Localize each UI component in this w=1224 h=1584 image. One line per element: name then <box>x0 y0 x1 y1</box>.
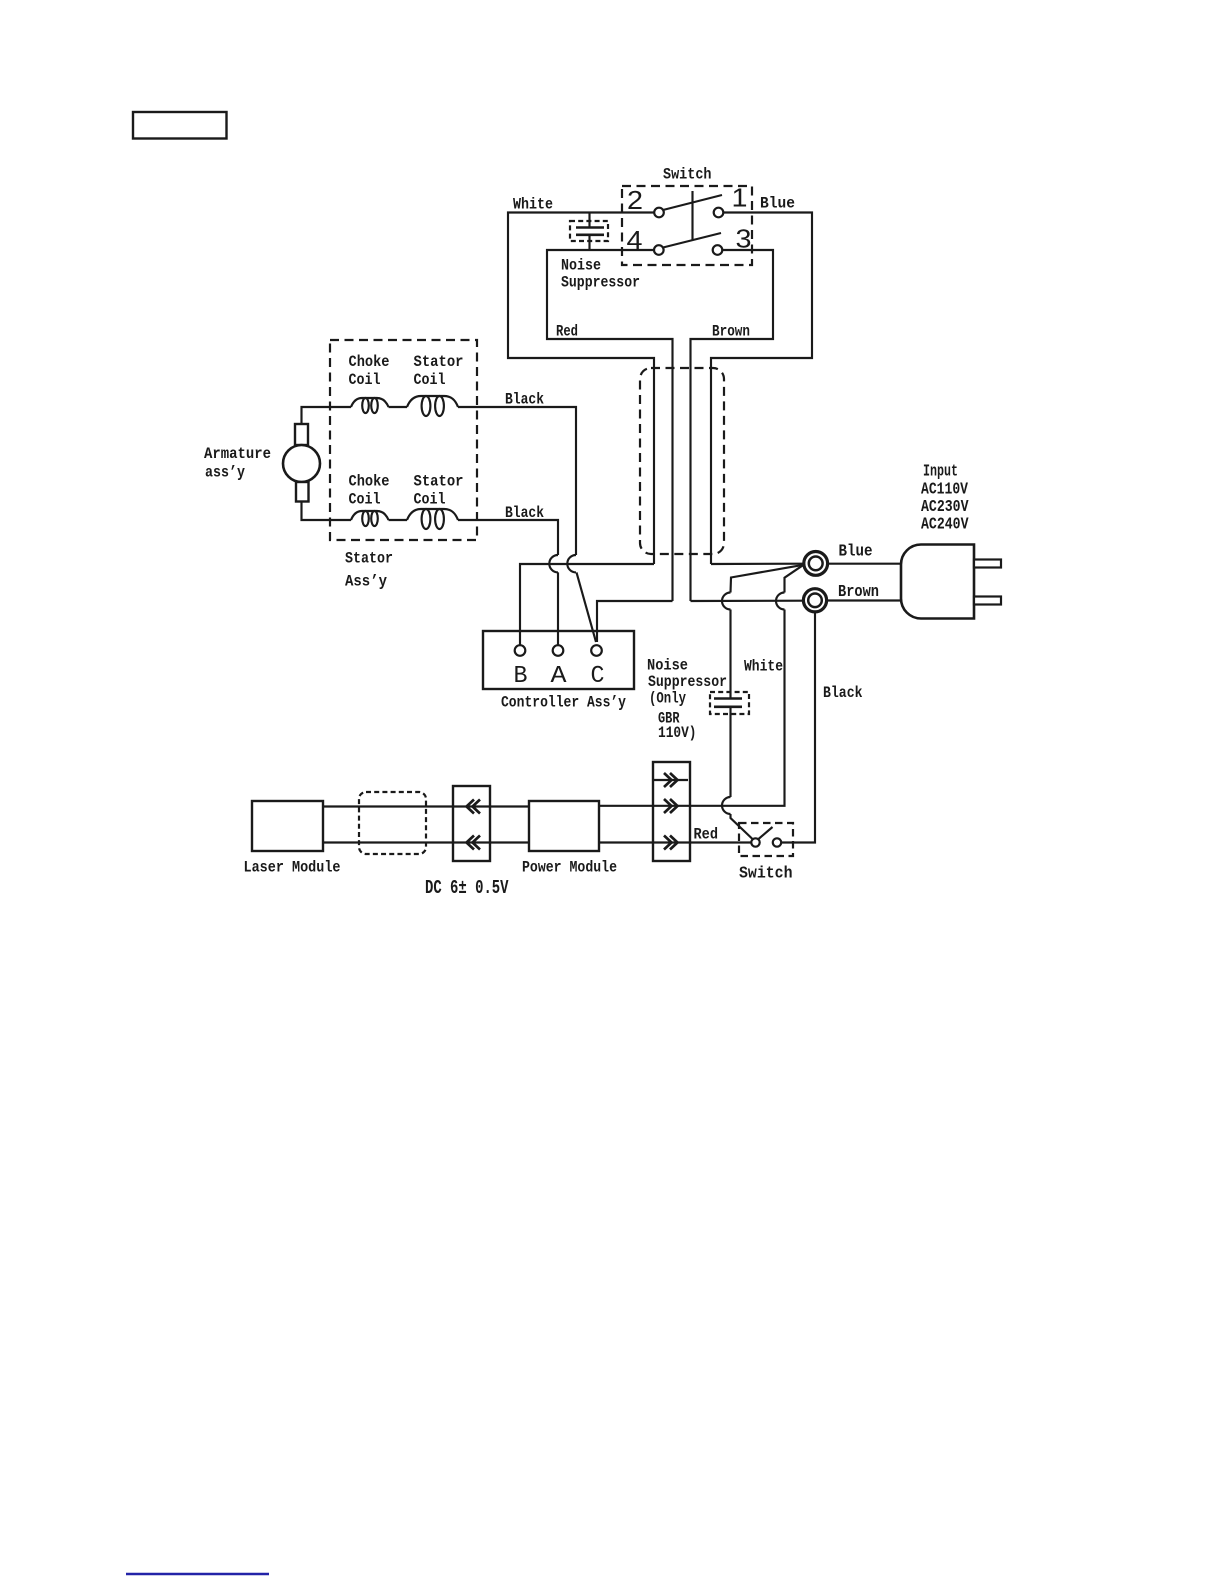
svg-text:(Only: (Only <box>649 690 686 708</box>
svg-text:Switch: Switch <box>739 865 793 884</box>
title box <box>133 112 227 139</box>
connector ring (blue) <box>804 552 828 576</box>
svg-text:DC 6± 0.5V: DC 6± 0.5V <box>425 877 509 899</box>
wire down to capacitor C2 <box>729 610 731 699</box>
slant wire from blue connector to x=730 vertical <box>731 565 804 593</box>
svg-text:White: White <box>513 196 553 214</box>
wire brown connector to plug <box>826 599 901 601</box>
capacitor C1 plates <box>576 226 604 229</box>
wire blue connector to plug <box>827 563 901 565</box>
wire <box>389 519 408 521</box>
svg-text:AC110V: AC110V <box>921 481 969 500</box>
svg-text:Coil: Coil <box>349 491 381 509</box>
armature top lead <box>302 407 352 424</box>
controller box <box>483 631 634 689</box>
wire white: terminal2 to left, down, right, down to junction <box>508 213 654 565</box>
svg-text:Coil: Coil <box>414 371 446 389</box>
slant wire from blue connector to white vertical <box>785 565 804 593</box>
switch terminal 1 <box>714 208 724 218</box>
choke coil L1 (upper) <box>351 398 389 407</box>
svg-text:1: 1 <box>732 183 748 213</box>
svg-text:Stator: Stator <box>345 550 393 568</box>
svg-text:Black: Black <box>505 391 544 409</box>
svg-text:Suppressor: Suppressor <box>648 673 727 691</box>
armature brush bottom <box>296 482 309 502</box>
power module box <box>529 801 599 851</box>
laser cable dashed box <box>359 792 426 854</box>
chevron lower left <box>467 836 481 850</box>
svg-text:Black: Black <box>505 504 544 522</box>
svg-text:Controller Ass’y: Controller Ass’y <box>501 694 626 712</box>
chevron bottom right <box>664 836 678 850</box>
hop of upper black wire over node-B wire <box>567 555 576 572</box>
wire node B horizontal <box>520 564 654 645</box>
svg-text:2: 2 <box>627 185 643 215</box>
lamp switch terminal left <box>751 838 759 846</box>
lamp switch terminal right <box>773 838 781 846</box>
svg-text:C: C <box>591 663 605 690</box>
wire laser lower <box>323 841 529 843</box>
white wire down and left to connector block <box>690 610 785 806</box>
capacitor C2 dashed box <box>710 692 749 714</box>
svg-text:110V): 110V) <box>658 724 697 742</box>
wire black (upper) <box>458 407 576 555</box>
chevron top right <box>664 773 678 787</box>
svg-text:Red: Red <box>694 826 719 844</box>
svg-text:B: B <box>514 663 528 690</box>
stator assembly dashed box <box>330 340 477 540</box>
wire power to connector lower / to lamp switch <box>599 841 752 843</box>
plug prong bottom <box>974 597 1001 605</box>
black wire from brown connector down to lamp switch <box>781 612 815 843</box>
choke coil L3 (lower) <box>351 511 389 520</box>
wire blue horizontal to connector <box>711 563 804 565</box>
wire black (lower) <box>458 520 558 555</box>
svg-text:Suppressor: Suppressor <box>561 274 640 292</box>
controller terminal A <box>553 645 564 656</box>
svg-text:Input: Input <box>923 463 958 482</box>
wire red to node C <box>597 601 673 642</box>
connector ring (brown) <box>803 589 826 612</box>
power plug body <box>901 545 974 619</box>
svg-text:Blue: Blue <box>760 195 795 213</box>
svg-text:Power Module: Power Module <box>522 859 617 877</box>
wire <box>389 406 408 408</box>
svg-text:A: A <box>551 663 568 690</box>
hop of wire over brown horizontal <box>722 593 731 610</box>
armature body <box>283 445 320 482</box>
switch terminal 2 <box>654 208 664 218</box>
wire to terminal A <box>557 572 559 645</box>
wire power to connector upper <box>599 805 690 807</box>
svg-text:Choke: Choke <box>349 473 390 491</box>
capacitor C2 plates <box>714 697 742 700</box>
controller terminal C <box>591 645 602 656</box>
cable dashed outline <box>640 368 724 554</box>
svg-text:Stator: Stator <box>414 473 464 491</box>
switch terminal 3 <box>713 245 723 255</box>
wire brown horizontal to connector <box>691 600 804 602</box>
connector block (right, male) <box>653 762 690 861</box>
slant wire to lamp switch <box>731 814 753 839</box>
hop of red wire over middle chevron wire <box>722 797 731 814</box>
lamp switch dashed box <box>739 823 793 856</box>
svg-text:Noise: Noise <box>647 657 688 675</box>
laser module box <box>252 801 323 851</box>
svg-text:White: White <box>744 658 783 676</box>
upper black slant to C <box>577 572 597 642</box>
wire below capacitor C2 <box>729 707 731 797</box>
plug prong top <box>974 560 1001 568</box>
armature brush top <box>295 424 308 445</box>
svg-text:Stator: Stator <box>414 353 464 371</box>
svg-text:Choke: Choke <box>349 353 390 371</box>
svg-text:Black: Black <box>823 684 863 702</box>
svg-text:Armature: Armature <box>204 445 271 463</box>
capacitor C1 lead bottom <box>588 235 590 250</box>
svg-text:Coil: Coil <box>414 491 446 509</box>
svg-text:Coil: Coil <box>349 371 381 389</box>
chevron stub wire <box>654 779 688 781</box>
chevron mid right <box>664 799 678 813</box>
switch S1 lever 2-1 <box>661 195 722 211</box>
connector block (left, female) <box>453 786 490 861</box>
stator coil L2 (upper) <box>407 396 458 407</box>
svg-text:Ass’y: Ass’y <box>345 573 387 591</box>
hop of white wire over brown horizontal <box>776 593 785 610</box>
svg-text:Brown: Brown <box>712 323 750 341</box>
svg-text:Noise: Noise <box>561 257 601 275</box>
switch S1 mechanical link <box>691 191 693 240</box>
switch S1 lever 4-3 <box>661 233 721 248</box>
wire blue: terminal1 right, down, left, down <box>711 213 812 565</box>
capacitor C1 lead top <box>588 213 590 228</box>
capacitor C1 dashed box <box>570 221 608 241</box>
svg-text:Brown: Brown <box>838 583 879 602</box>
svg-text:Blue: Blue <box>839 543 873 562</box>
controller terminal B <box>515 645 526 656</box>
switch S1 dashed box <box>622 186 752 265</box>
armature bottom lead <box>302 502 352 521</box>
svg-text:Switch: Switch <box>663 166 712 184</box>
hop of lower black wire over node-B wire <box>549 555 558 572</box>
footer blue line <box>126 1573 269 1576</box>
switch terminal 4 <box>654 245 664 255</box>
stator coil L4 (lower) <box>407 509 458 520</box>
lamp switch lever <box>759 827 773 839</box>
svg-text:Red: Red <box>556 323 578 341</box>
svg-text:AC240V: AC240V <box>921 516 969 535</box>
svg-text:ass’y: ass’y <box>205 464 245 482</box>
svg-text:AC230V: AC230V <box>921 498 969 517</box>
wire brown: terminal3 right, down, left, down <box>691 250 774 601</box>
wire red: terminal4 left, down, right, down <box>547 250 673 601</box>
wire laser upper <box>323 805 529 807</box>
chevron upper left <box>467 800 481 814</box>
svg-text:Laser Module: Laser Module <box>244 859 341 877</box>
